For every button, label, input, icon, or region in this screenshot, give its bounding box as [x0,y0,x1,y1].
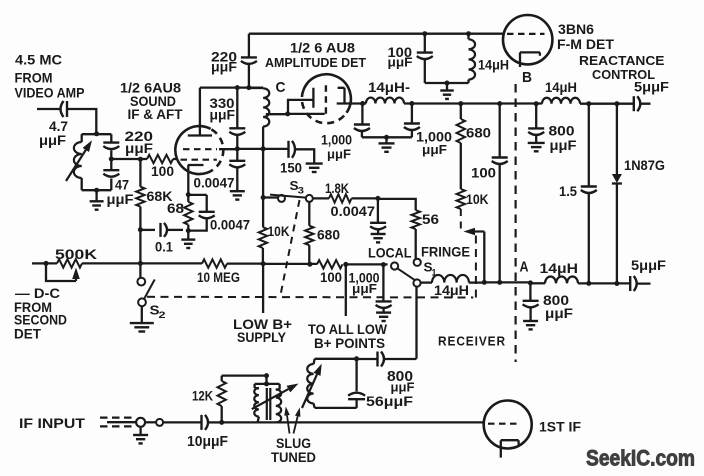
capacitor C11 1000uuF (det2) [404,104,452,158]
transformer T1 primary [254,384,266,422]
svg-text:10 MEG: 10 MEG [197,269,240,285]
svg-text:μμF: μμF [327,147,351,162]
wire A to L7 [530,282,545,284]
capacitor C14 800uuF (top right) [528,104,577,153]
svg-text:10μμF: 10μμF [187,433,228,450]
wire main bus to 100 [263,263,317,265]
svg-text:14μH: 14μH [478,57,509,73]
resistor R7 10 MEG [197,259,240,285]
svg-text:FRINGE: FRINGE [421,244,470,260]
wire 68K to main bus [139,230,141,264]
wire B+ points stub [345,264,347,316]
wire mid rail [363,102,651,104]
label RECEIVER [438,334,506,349]
node T1 bar junction [264,381,269,386]
svg-text:14μH: 14μH [434,282,469,298]
svg-text:B+ POINTS: B+ POINTS [314,335,385,351]
svg-text:100: 100 [471,165,496,181]
wire 1.8K to 56 [352,197,378,199]
slug arrow through L8 [302,364,322,408]
svg-text:SUPPLY: SUPPLY [237,329,287,345]
svg-text:B: B [522,69,532,86]
label 3BN6 F-M DET [557,21,614,52]
svg-text:12K: 12K [192,388,213,404]
svg-text:LOCAL: LOCAL [368,245,412,261]
label 1/2 6AU8 AMPLITUDE DET [265,40,366,71]
resistor R12 56 [412,210,440,258]
wire 100uuF-14uH bottom [425,82,469,84]
svg-text:C: C [276,79,286,96]
inductor L5 14uH (rail right) [542,79,580,104]
tube V4 grid (dashed) [488,423,521,425]
svg-text:RECEIVER: RECEIVER [438,334,506,349]
capacitor C16 5uuF (top right series) [634,79,670,112]
svg-text:68: 68 [167,200,184,216]
node 12K bottom [219,420,224,425]
diode D1 1N87G [612,104,665,284]
svg-text:56μμF: 56μμF [366,393,413,409]
wire tank top [82,133,112,135]
svg-text:56: 56 [422,211,439,227]
svg-text:100: 100 [151,163,174,179]
coax shield circle [136,418,145,427]
capacitor C19 800uuF (A node) [523,283,574,321]
label LOW B+ SUPPLY [233,316,292,345]
tube V2 plate [338,88,345,104]
capacitor C9 220uuF (coupling to top bus) [211,34,257,88]
node A tie point [520,259,529,276]
ground (V1 cathode) [181,231,195,248]
svg-text:10K: 10K [268,223,290,239]
resistor R11 1.8K [313,180,352,203]
node plate wire junctions [235,85,252,90]
wire to 56 resistor corner [378,199,416,210]
svg-text:μμF: μμF [107,191,134,207]
switch S3 [261,178,313,202]
wire input to 10uuF [163,421,200,423]
wire S1 common down [415,287,417,359]
wire input from video amp [37,109,96,134]
svg-text:0.0047: 0.0047 [331,203,376,219]
node 0.0047 junction (S3 out) [375,196,380,201]
inductor L3 14uH (rail left) [366,79,410,104]
capacitor C20 5uuF (lower series) [630,257,666,291]
tube V1 cathode [188,165,204,195]
node 500K left [44,261,49,266]
svg-text:μμF: μμF [211,59,237,75]
tube V1 control grid (dashed) [181,159,217,161]
svg-text:0.0047: 0.0047 [194,175,235,191]
node top bus ground stub [445,81,450,86]
node V2 grid loop corner [285,111,290,116]
slug arrow through T1 [252,384,299,410]
node rail 100cap junction [497,101,502,106]
node T1 feed [264,373,269,378]
resistor R10 680 (S3) [305,202,340,264]
node main bus C line [261,261,266,266]
capacitor C5 0.0047 (cathode bypass) [188,195,250,233]
node rail right junctions [586,101,619,106]
ground (AVC cap) [376,313,391,321]
node det cap2 rail [409,101,414,106]
slug small arrows [284,407,300,434]
capacitor C8 150 (to ground) [280,141,314,176]
label LOCAL FRINGE [368,244,470,261]
svg-text:μμF: μμF [422,142,447,157]
potentiometer R6 500K [46,246,140,281]
node plate rail junction [360,101,365,106]
variable inductor L1 (tank, arrow) [66,134,92,190]
ground (coax shield) [133,427,148,444]
ground (A node cap) [523,321,538,329]
ground (det caps) [379,137,395,152]
svg-text:4.5 MC: 4.5 MC [15,52,62,68]
svg-text:FROM: FROM [15,70,53,86]
node tank mid [109,151,114,170]
svg-text:14μH: 14μH [545,79,577,95]
transformer T1 secondary [267,384,282,422]
wire grid line to V1 [111,158,147,160]
wire C line down [262,149,264,198]
node tank bottom junction [94,188,99,193]
svg-text:SeekIC.com: SeekIC.com [586,446,695,471]
node rail 800 junction [534,101,539,106]
svg-text:TUNED: TUNED [271,449,316,465]
svg-text:REACTANCE: REACTANCE [579,53,665,68]
svg-text:100: 100 [320,269,342,285]
inductor L7 14uH (A out) [540,260,579,283]
svg-text:μμF: μμF [210,107,236,123]
svg-text:A: A [520,259,529,276]
switch S1 [391,259,437,287]
tube V1 plate [188,88,212,136]
wire det caps bottom [362,136,412,138]
ground (800uuF top) [528,143,545,151]
svg-text:680: 680 [317,227,340,243]
label TO ALL LOW B+ POINTS [308,321,388,351]
wire 12K top to T1 [222,374,267,376]
node det bottom center [384,135,389,140]
resistor R5 10K [457,189,489,209]
label REACTANCE CONTROL [579,53,665,82]
node main bus 680 junction [307,262,312,267]
svg-text:3BN6: 3BN6 [558,21,594,37]
resistor R2 68K [136,159,172,230]
wire screen line to 150 cap [237,148,287,150]
capacitor C12 100uuF (top bus) [388,31,433,83]
svg-text:μμF: μμF [550,137,577,153]
svg-text:1.5: 1.5 [559,183,577,199]
tube V2 cathode bar (dashed) [325,85,327,118]
resistor R13 12K [192,376,226,423]
label 4.5 MC FROM VIDEO AMP [15,52,85,101]
node lower right junctions [586,281,619,286]
svg-text:1/2 6 AU8: 1/2 6 AU8 [290,40,355,56]
svg-text:1N87G: 1N87G [624,157,665,173]
inductor L6 14uH (S1 out) [421,275,485,298]
svg-text:μμF: μμF [352,281,377,296]
node C tie point [276,79,286,96]
AFC arrow to linkage [464,228,485,283]
wire top bus [249,33,504,35]
capacitor C22 56uuF [348,359,413,409]
node bus right junction [343,262,348,267]
label IF INPUT [19,415,85,431]
tube V3 cathode [520,52,540,67]
svg-text:IF INPUT: IF INPUT [19,415,85,431]
capacitor C2 220uuF (tank upper) [103,128,153,156]
node V1 cathode junction [186,192,191,197]
wire T1 feed stub [265,376,267,384]
switch S2 [137,263,165,322]
ground (150 cap) [306,164,323,172]
wire L7 to 5uuF [578,282,651,285]
svg-text:10K: 10K [466,191,489,207]
label 1ST IF [539,419,581,435]
svg-text:μμF: μμF [391,380,415,395]
wire low B+ stub [262,264,264,313]
capacitor C6 330uuF (screen) [210,88,246,149]
node tank top junction [354,356,359,361]
tube V3 3BN6 envelope [503,15,552,64]
label 1/2 6AU8 SOUND IF & AFT [120,80,183,123]
ground (screen bypass) [230,191,245,199]
svg-text:2: 2 [159,310,166,321]
wire 10MEG to C line [227,262,263,264]
wire main bus to 10MEG [140,262,202,264]
svg-text:5μμF: 5μμF [631,257,666,273]
node AFC junctions [482,280,502,285]
svg-text:0.0047: 0.0047 [210,217,250,233]
svg-text:F-M DET: F-M DET [557,36,614,52]
wire bus to LOCAL contact [346,263,388,265]
tube V2 grid tap from L2 [266,113,288,115]
linkage dashed corner up [475,233,477,298]
ground (tank) [90,190,104,210]
svg-text:14μH-: 14μH- [368,79,410,95]
ground (top bus) [440,83,454,99]
capacitor C23 800uuF (series to S1 line) [357,352,417,395]
linkage dashed from 10K [460,209,462,231]
node bus 1000uuF junction [381,262,386,267]
wire 10uuF to junction [209,421,222,423]
inductor L4 14uH (top bus) [466,31,509,83]
capacitor C10 1000uuF (det1) [321,104,370,162]
svg-text:μμF: μμF [545,305,573,321]
wire AFC to A node [484,281,530,283]
svg-text:3: 3 [298,186,305,197]
capacitor C17 1000uuF (AVC) [349,265,392,313]
svg-text:1,000: 1,000 [321,132,352,148]
svg-text:IF & AFT: IF & AFT [128,106,183,122]
wire main bus left [32,262,46,264]
tube V1 1/2 6AU8 envelope [175,126,223,174]
linkage dashed S3 arm [280,200,299,296]
tube V2 envelope [302,74,351,123]
capacitor C18 0.0047 (S3) [331,198,387,233]
wire tank bottom [315,407,357,409]
inductor L8 1st IF tank coil [307,359,356,408]
svg-text:AMPLITUDE DET: AMPLITUDE DET [265,55,366,70]
connector circle [145,419,163,426]
transformer T1 core [267,388,271,420]
wire tank bottom [82,189,112,191]
tube V4 cathode [501,440,519,457]
tube V1 screen grid (dashed) and lead [183,148,237,150]
svg-text:680: 680 [466,125,491,141]
node A junction [528,280,533,285]
coax center conductor [107,421,136,423]
wire V1 plate to C node [200,86,263,88]
resistor R8 10K (C line) [259,198,290,264]
capacitor C1 4.7uuF (series input) [39,101,68,148]
inductor L2 grid coil (C line) [250,88,269,149]
capacitor C21 10uuF [187,415,228,450]
svg-text:DET: DET [14,326,41,342]
capacitor C13 100 (AFC line) [471,104,508,283]
node main bus 68K junction [138,261,143,266]
svg-text:14μH: 14μH [540,260,579,276]
svg-text:μμF: μμF [39,132,66,148]
node rail 680 junction [458,101,463,106]
node screen line junctions [235,146,266,151]
node 68K top [138,157,143,162]
svg-text:150: 150 [280,160,302,176]
svg-text:1.8K: 1.8K [325,180,349,196]
linkage dashed horizontal [147,296,473,299]
svg-text:VIDEO AMP: VIDEO AMP [15,85,85,101]
svg-text:1ST IF: 1ST IF [539,419,581,435]
label D-C FROM SECOND DET [14,285,67,342]
ground (S2) [130,323,154,331]
tube V3 grid (dashed) [507,33,545,35]
resistor R9 100 (bus) [317,260,343,285]
tube V2 grid loop [288,88,325,114]
resistor R4 680 [457,104,492,189]
boundary dashed receiver line [514,84,516,362]
wire bottom bus [222,421,484,423]
svg-text:500K: 500K [55,246,97,262]
node 68K bottom [138,227,143,232]
watermark SeekIC.com [586,446,695,471]
svg-text:μμF: μμF [388,55,413,70]
coax shield dashes [100,418,136,427]
capacitor C4 0.1 [140,223,183,255]
capacitor C7 0.0047 (screen bypass) [194,149,246,191]
capacitor C3 47uuF (tank lower) [103,170,134,207]
svg-text:5μμF: 5μμF [634,79,669,95]
svg-text:0.1: 0.1 [155,239,173,255]
ground (C18) [371,234,386,242]
node tank top [94,131,99,136]
tube V2 plate lead [337,102,363,104]
node V1 cathode bottom [186,228,191,233]
capacitor C15 1.5 [559,104,597,284]
tube V4 1ST IF envelope [484,401,532,449]
resistor R1 100 (grid stopper) [147,155,177,179]
resistor R3 68 (cathode) [167,195,193,231]
node B tie point [522,69,532,86]
label SLUG TUNED [271,435,316,465]
